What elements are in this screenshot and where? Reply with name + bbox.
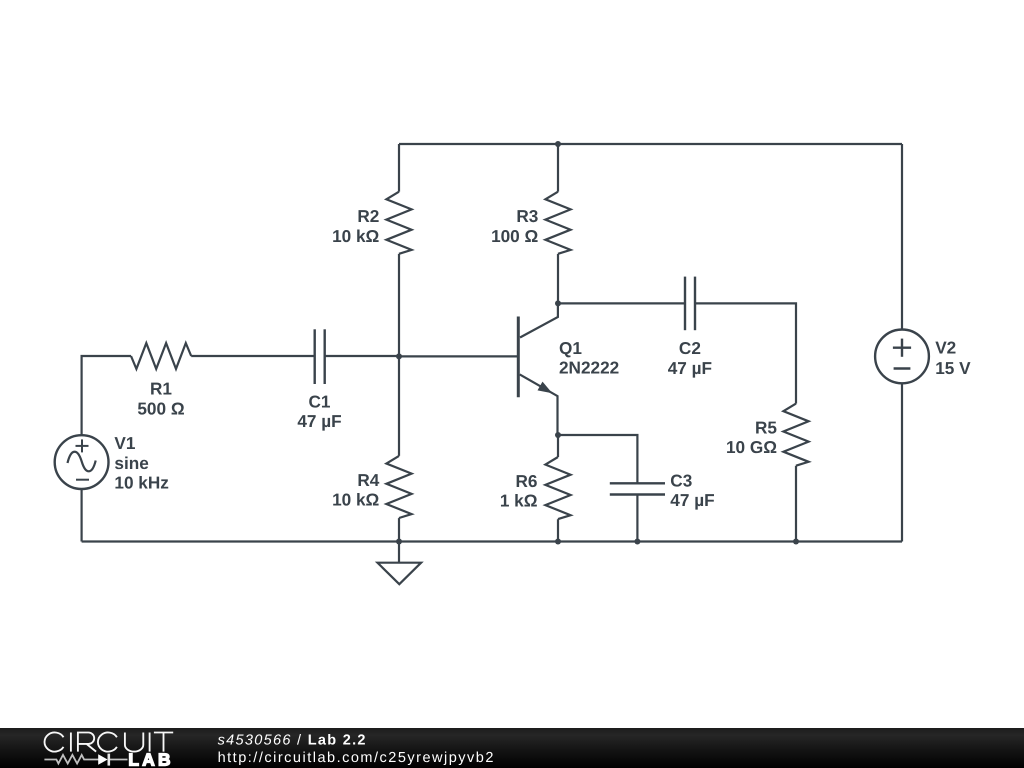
node dot R5 ground xyxy=(793,539,799,545)
node dot collector xyxy=(555,300,561,306)
wire R4 bottom lead xyxy=(398,518,400,541)
wire base node to Q1 xyxy=(399,355,518,357)
svg-text:s4530566 / Lab 2.2: s4530566 / Lab 2.2 xyxy=(218,732,367,748)
svg-text:10 kΩ: 10 kΩ xyxy=(332,226,379,246)
wire R2 bottom lead xyxy=(398,254,400,356)
node dot base xyxy=(396,353,402,359)
svg-text:C2: C2 xyxy=(679,338,701,358)
svg-text:R2: R2 xyxy=(357,206,379,226)
resistor R1 xyxy=(131,343,191,369)
wire R5 bottom lead xyxy=(795,466,797,542)
svg-text:http://circuitlab.com/c25yrewj: http://circuitlab.com/c25yrewjpyvb2 xyxy=(218,750,495,766)
svg-text:LAB: LAB xyxy=(128,749,173,768)
svg-text:15 V: 15 V xyxy=(935,358,971,378)
capacitor C2 xyxy=(685,277,695,331)
wire R3 top lead xyxy=(557,144,559,192)
svg-text:R3: R3 xyxy=(516,206,538,226)
source V1 xyxy=(55,435,109,489)
wire V2 top xyxy=(901,144,903,330)
wire R3 to collector node xyxy=(557,254,559,304)
svg-text:sine: sine xyxy=(114,453,148,473)
resistor R2 xyxy=(386,192,411,254)
resistor R6 xyxy=(545,457,570,519)
svg-text:V1: V1 xyxy=(114,433,135,453)
wire bottom rail xyxy=(82,540,902,542)
svg-text:10 kHz: 10 kHz xyxy=(114,473,168,493)
logo resistor-diode xyxy=(44,754,127,766)
resistor R3 xyxy=(545,192,570,254)
logo CIRCUIT xyxy=(45,733,174,752)
wire R1 to C1 xyxy=(191,355,315,357)
wire ground lead xyxy=(398,542,400,563)
capacitor C1 xyxy=(315,329,325,384)
svg-text:R4: R4 xyxy=(357,470,379,490)
node dot C3 ground xyxy=(634,539,640,545)
logo diode triangle xyxy=(98,754,107,765)
wire C3 bottom lead xyxy=(636,495,638,542)
svg-text:100 Ω: 100 Ω xyxy=(491,226,538,246)
resistor R4 xyxy=(386,456,411,518)
svg-text:R6: R6 xyxy=(516,471,538,491)
wire V2 bottom xyxy=(901,383,903,541)
svg-text:47 µF: 47 µF xyxy=(670,490,714,510)
wire C1 to base node xyxy=(325,355,399,357)
wire R6 bottom lead xyxy=(557,519,559,541)
svg-text:10 GΩ: 10 GΩ xyxy=(726,437,777,457)
svg-text:Q1: Q1 xyxy=(559,338,582,358)
source V2 xyxy=(875,330,929,384)
wire top rail xyxy=(399,143,902,145)
wire R2 top lead xyxy=(398,144,400,192)
wire R4 top lead xyxy=(398,356,400,456)
svg-text:47 µF: 47 µF xyxy=(668,358,712,378)
transistor Q1 xyxy=(518,303,558,435)
svg-text:C3: C3 xyxy=(670,471,692,491)
wire emitter node to C3 xyxy=(558,435,637,483)
svg-text:R1: R1 xyxy=(150,379,172,399)
svg-text:2N2222: 2N2222 xyxy=(559,358,619,378)
svg-text:R5: R5 xyxy=(755,417,777,437)
ground xyxy=(378,563,422,585)
wire V1 top lead xyxy=(82,356,131,435)
node dot top rail/R3 xyxy=(555,141,561,147)
wire collector node to C2 xyxy=(558,302,685,304)
wire emitter node to R6 xyxy=(557,435,559,457)
wire V1 bottom lead xyxy=(80,489,82,542)
svg-text:C1: C1 xyxy=(309,391,331,411)
svg-text:V2: V2 xyxy=(935,338,956,358)
node dot R6 ground xyxy=(555,539,561,545)
capacitor C3 xyxy=(610,483,665,494)
resistor R5 xyxy=(783,404,808,466)
node dot emitter xyxy=(555,432,561,438)
svg-text:47 µF: 47 µF xyxy=(297,411,341,431)
node dot R4 ground xyxy=(396,539,402,545)
svg-text:10 kΩ: 10 kΩ xyxy=(332,490,379,510)
wire C2 to R5 xyxy=(695,303,796,403)
svg-text:1 kΩ: 1 kΩ xyxy=(500,490,538,510)
svg-text:500 Ω: 500 Ω xyxy=(137,399,184,419)
